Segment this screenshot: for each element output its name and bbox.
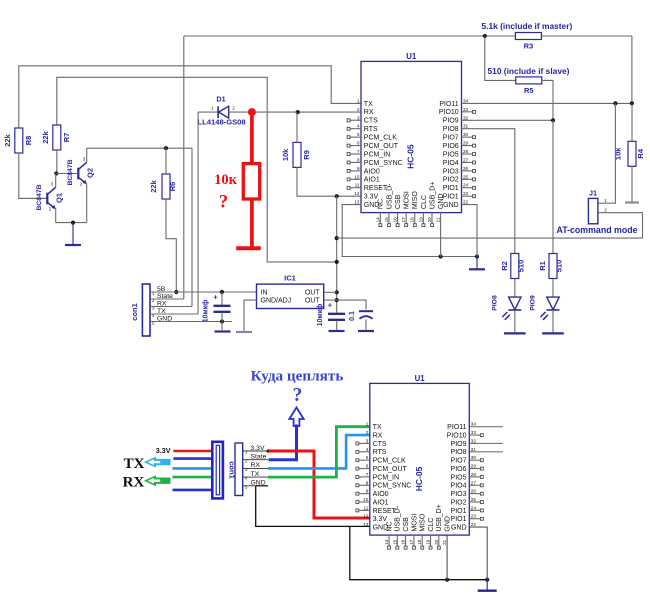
svg-text:AT-command mode: AT-command mode: [557, 225, 638, 235]
ground for GND/ADJ: [236, 331, 252, 333]
svg-text:PIO5: PIO5: [443, 151, 459, 158]
arrow RX green: [144, 475, 171, 486]
svg-text:TX: TX: [124, 456, 145, 472]
svg-text:33: 33: [471, 430, 477, 435]
svg-text:0.1: 0.1: [349, 311, 356, 321]
resistor R3 5.1k (include if master): [482, 21, 573, 51]
junction R7/Q1 collector/Q2 base: [54, 171, 58, 175]
svg-text:AIO1: AIO1: [364, 177, 380, 184]
svg-text:PIO1: PIO1: [451, 508, 467, 515]
connector con1 (top): [130, 284, 150, 336]
svg-text:1: 1: [211, 106, 214, 111]
svg-text:8: 8: [357, 157, 360, 162]
wire R8 bottom to Q1 base: [19, 153, 47, 198]
svg-text:30: 30: [471, 455, 477, 460]
svg-text:2: 2: [245, 458, 248, 463]
junction pin21 on gnd rail: [439, 254, 443, 258]
svg-text:27: 27: [463, 157, 469, 162]
LED PIO8: [492, 279, 522, 333]
svg-text:CTS: CTS: [364, 118, 378, 125]
wire D1 cathode down to con1 TX: [197, 112, 199, 314]
junction 3.3V column top: [335, 194, 339, 198]
wire IC1 OUT pins to 3.3V column: [324, 291, 337, 293]
svg-text:9: 9: [357, 166, 360, 171]
svg-text:PCM_OUT: PCM_OUT: [364, 143, 399, 150]
svg-text:TX: TX: [373, 424, 382, 431]
svg-text:GND: GND: [445, 516, 452, 532]
svg-text:CLC: CLC: [421, 195, 428, 209]
svg-text:3.3V: 3.3V: [364, 194, 379, 201]
wire black GND path: [256, 485, 268, 487]
wire con1 5B row to IC1 IN: [150, 291, 257, 293]
svg-text:PCM_IN: PCM_IN: [373, 474, 399, 481]
svg-text:32: 32: [463, 115, 469, 120]
svg-text:R2: R2: [500, 261, 509, 271]
svg-text:J1: J1: [589, 189, 597, 198]
svg-text:PIO9: PIO9: [451, 441, 467, 448]
wire cyan RX row left: [173, 467, 214, 470]
svg-text:22: 22: [471, 522, 477, 527]
capacitor 10uF electrolytic at con1: [203, 292, 231, 322]
svg-text:3: 3: [245, 467, 248, 472]
wire R6 bottom jog to 5B net: [166, 199, 176, 292]
svg-text:PIO7: PIO7: [443, 135, 459, 142]
svg-text:RX: RX: [123, 475, 145, 491]
HC-05 module U1 (top): [347, 52, 475, 226]
svg-text:27: 27: [471, 480, 477, 485]
con1-2 pin 3 RX: [243, 467, 268, 469]
svg-text:D1: D1: [216, 95, 225, 104]
resistor R6 22k: [149, 174, 177, 199]
svg-text:CSB: CSB: [403, 517, 410, 532]
svg-text:25: 25: [463, 174, 469, 179]
wire 3.3V column x=336.7: [336, 196, 338, 313]
svg-text:PIO4: PIO4: [451, 483, 467, 490]
ground below cap1: [215, 330, 231, 332]
voltage regulator IC1: [257, 274, 324, 309]
svg-text:USB_D-: USB_D-: [395, 505, 402, 531]
wire PIO8 row to R2 column: [462, 129, 515, 254]
arrow TX cyan: [144, 457, 171, 468]
svg-text:PCM_IN: PCM_IN: [364, 151, 390, 158]
junction cap1 top on 5B: [220, 290, 224, 294]
wire net R7 rail y=77.3: [57, 77, 337, 262]
svg-text:10: 10: [363, 497, 369, 502]
svg-text:PIO9: PIO9: [530, 295, 537, 311]
resistor R5 510 (include if slave): [488, 66, 570, 95]
svg-text:10: 10: [354, 174, 360, 179]
svg-text:34: 34: [471, 422, 477, 427]
svg-text:GND: GND: [451, 525, 467, 532]
svg-text:3.3V: 3.3V: [156, 446, 171, 455]
svg-text:OUT: OUT: [305, 298, 321, 305]
svg-text:RX: RX: [364, 109, 374, 116]
svg-text:21: 21: [442, 539, 447, 545]
svg-text:PIO7: PIO7: [451, 458, 467, 465]
svg-text:con1: con1: [228, 461, 237, 479]
svg-text:PIO1: PIO1: [451, 516, 467, 523]
svg-text:U1: U1: [415, 374, 426, 383]
svg-text:13: 13: [354, 200, 360, 205]
svg-text:AIO1: AIO1: [373, 499, 389, 506]
ground below 10uF-2: [329, 330, 345, 332]
svg-text:13: 13: [363, 522, 369, 527]
svg-text:PIO2: PIO2: [443, 177, 459, 184]
wire PIO9-2 row: [469, 442, 503, 444]
svg-text:1: 1: [357, 98, 360, 103]
wire R9 bottom to 3.3V pin row: [297, 167, 361, 196]
junction cap1 bottom on GND: [220, 319, 224, 323]
wire red 3.3V stub left: [173, 450, 213, 453]
svg-text:MISO: MISO: [412, 191, 419, 209]
svg-text:8: 8: [366, 480, 369, 485]
svg-text:con1: con1: [130, 303, 139, 321]
svg-text:GND: GND: [438, 194, 445, 210]
svg-text:PIO10: PIO10: [447, 432, 467, 439]
svg-text:PIO5: PIO5: [451, 474, 467, 481]
svg-text:17: 17: [401, 217, 406, 223]
svg-text:15: 15: [392, 539, 397, 545]
wire net KEY: top rail y=36 from x=183.8 to R3 and on to x=631.9: [184, 35, 516, 37]
transistor Q2 BC847B: [56, 148, 94, 222]
wire PIO11-2 row: [469, 426, 503, 428]
svg-text:510 (include if slave): 510 (include if slave): [488, 66, 570, 76]
junction 3.3V rail: [335, 236, 339, 240]
svg-text:HC-05: HC-05: [406, 144, 416, 169]
svg-text:4: 4: [357, 124, 360, 129]
svg-text:AIO0: AIO0: [364, 168, 380, 175]
svg-text:20: 20: [434, 539, 439, 545]
junction emitter rail / ground: [71, 221, 75, 225]
svg-text:22: 22: [463, 200, 469, 205]
wire U1 GND pin13 down: [342, 205, 477, 257]
svg-text:Q1: Q1: [55, 193, 64, 203]
svg-text:PIO6: PIO6: [443, 143, 459, 150]
svg-text:PIO9: PIO9: [443, 118, 459, 125]
svg-text:1: 1: [245, 450, 248, 455]
wire navy bottom stub left: [173, 489, 214, 492]
svg-text:R5: R5: [524, 86, 534, 95]
svg-text:32: 32: [471, 438, 477, 443]
svg-text:2: 2: [604, 207, 607, 212]
svg-text:CLC: CLC: [428, 518, 435, 532]
svg-text:14: 14: [375, 217, 380, 223]
con1-2 pin 1 3.3V: [243, 450, 268, 452]
junction pin22 gnd rail: [475, 254, 479, 258]
svg-text:OUT: OUT: [305, 290, 321, 297]
svg-text:24: 24: [471, 505, 477, 510]
svg-text:PCM_SYNC: PCM_SYNC: [364, 160, 403, 167]
svg-text:10k: 10k: [281, 148, 290, 161]
svg-text:3.3V: 3.3V: [251, 445, 265, 452]
svg-text:R3: R3: [524, 42, 534, 51]
svg-text:PIO3: PIO3: [451, 491, 467, 498]
svg-text:4: 4: [366, 447, 369, 452]
svg-text:R8: R8: [24, 136, 33, 146]
wire net Q2 collector rail y=148.2: [87, 147, 192, 149]
svg-text:21: 21: [436, 217, 441, 223]
junction PIO9 column: [551, 118, 555, 122]
svg-text:22k: 22k: [149, 179, 158, 192]
ground below LED PIO8: [504, 332, 526, 334]
svg-text:2: 2: [232, 106, 235, 111]
svg-text:IC1: IC1: [284, 274, 296, 283]
junction pin21 bottom rail: [445, 578, 449, 582]
svg-text:6: 6: [366, 464, 369, 469]
wire con1 TX row: [150, 313, 198, 315]
wire State blue thick: [269, 425, 297, 460]
wire con1 GND row: [150, 321, 232, 323]
ground below 0.1: [358, 330, 374, 332]
svg-text:16: 16: [401, 539, 406, 545]
wire emitter rail: [56, 222, 87, 224]
wire from R5 right to PIO9 column: [542, 80, 553, 121]
svg-text:LL4148-GS08: LL4148-GS08: [198, 118, 246, 127]
wire pin22 GND down right side: [469, 527, 487, 580]
svg-text:R6: R6: [168, 182, 177, 192]
capacitor 0.1 ceramic: [349, 311, 373, 330]
svg-text:NC: NC: [378, 199, 385, 209]
svg-text:+: +: [213, 293, 218, 302]
wire vertical x=631.9 down to PIO11 row: [631, 36, 633, 103]
svg-text:31: 31: [471, 447, 477, 452]
ground below R4: [625, 201, 639, 203]
transistor Q1 BC847B: [29, 174, 64, 223]
svg-text:R7: R7: [62, 133, 71, 143]
svg-text:PIO1: PIO1: [443, 185, 459, 192]
svg-text:14: 14: [384, 539, 389, 545]
svg-text:5: 5: [245, 484, 248, 489]
svg-text:TX: TX: [364, 101, 373, 108]
connector plug (blue, left): [212, 442, 223, 499]
wire J1 pin2 to 3.3V rail: [337, 213, 643, 238]
ground for U1 GND rail: [476, 257, 478, 270]
svg-text:23: 23: [463, 191, 469, 196]
svg-text:RTS: RTS: [373, 449, 387, 456]
resistor R2 510: [500, 254, 526, 279]
capacitor 10uF at IC1 output: [317, 301, 345, 331]
svg-text:PCM_CLK: PCM_CLK: [373, 458, 406, 465]
svg-text:Куда цеплять: Куда цеплять: [251, 368, 344, 385]
LED PIO9: [530, 279, 560, 333]
svg-text:PIO4: PIO4: [443, 160, 459, 167]
svg-text:RX: RX: [251, 462, 261, 469]
wire R1 column x=553: [552, 120, 554, 253]
svg-text:Q2: Q2: [86, 168, 95, 178]
svg-text:15: 15: [384, 217, 389, 223]
svg-text:18: 18: [410, 217, 415, 223]
svg-text:RTS: RTS: [364, 126, 378, 133]
svg-text:MOSI: MOSI: [404, 191, 411, 209]
svg-text:PIO11: PIO11: [447, 424, 466, 431]
svg-text:29: 29: [471, 464, 477, 469]
junction R6 chain on 5B line: [174, 290, 178, 294]
diode D1 LL4148-GS08: [198, 95, 248, 127]
wire dark blue stub left 2: [173, 457, 213, 460]
svg-text:2: 2: [80, 182, 83, 187]
svg-text:PIO8: PIO8: [443, 126, 459, 133]
svg-text:CSB: CSB: [395, 194, 402, 209]
svg-text:PIO2: PIO2: [451, 499, 467, 506]
wire vertical x=192 down to con1 RX: [191, 148, 193, 306]
wire net TX pullup: R8 top rail y=65.8: [19, 66, 361, 128]
svg-text:5: 5: [366, 455, 369, 460]
wire pin22 GND down: [462, 205, 478, 257]
ground bottom module: [486, 580, 488, 591]
svg-text:17: 17: [409, 539, 414, 545]
svg-text:GND/ADJ: GND/ADJ: [261, 298, 292, 305]
svg-text:30: 30: [463, 132, 469, 137]
svg-text:PIO8: PIO8: [492, 295, 499, 311]
svg-text:3: 3: [83, 157, 86, 162]
svg-text:23: 23: [471, 514, 477, 519]
svg-text:2: 2: [366, 430, 369, 435]
svg-text:16: 16: [393, 217, 398, 223]
svg-text:3.3V: 3.3V: [373, 516, 388, 523]
connector J1: [588, 189, 607, 224]
wire pin21 down to gnd rail: [440, 213, 442, 257]
wire cyan RX to U1-2 pin2: [268, 435, 370, 468]
con1-2 pin 4 TX: [243, 476, 268, 478]
svg-text:19: 19: [426, 539, 431, 545]
svg-text:R9: R9: [302, 150, 311, 160]
resistor R4 10k: [614, 141, 646, 166]
connector con1 (bottom): [228, 443, 243, 496]
wire R4 top: [631, 103, 633, 141]
svg-text:7: 7: [366, 472, 369, 477]
svg-text:25: 25: [471, 497, 477, 502]
svg-text:28: 28: [463, 149, 469, 154]
svg-text:GND: GND: [443, 202, 459, 209]
junction red resistor top (red): [248, 108, 256, 116]
svg-text:3: 3: [51, 182, 54, 187]
svg-text:1: 1: [366, 422, 369, 427]
svg-text:18: 18: [417, 539, 422, 545]
svg-text:BC847B: BC847B: [67, 159, 74, 185]
wire green TX row left: [173, 476, 214, 479]
svg-text:?: ?: [219, 193, 228, 213]
wire R7 bottom to Q1 collector junction: [56, 150, 58, 174]
svg-text:26: 26: [463, 166, 469, 171]
svg-text:R1: R1: [538, 261, 547, 271]
svg-text:12: 12: [354, 191, 360, 196]
svg-text:U1: U1: [406, 52, 417, 61]
resistor R1 510: [538, 254, 564, 279]
junction PIO11/J1 branch: [613, 101, 617, 105]
svg-text:PCM_OUT: PCM_OUT: [373, 466, 408, 473]
wire red 3.3V to U1-2 pin12: [268, 451, 370, 518]
wire PIO8-2 row: [469, 451, 503, 453]
svg-text:+: +: [328, 301, 333, 310]
svg-text:4: 4: [245, 476, 248, 481]
wire con1 State row: [150, 298, 184, 300]
wire vertical x=183.8 down to con1 State: [183, 36, 185, 299]
svg-text:PCM_CLK: PCM_CLK: [364, 135, 397, 142]
svg-text:R4: R4: [636, 148, 645, 158]
svg-text:7: 7: [357, 149, 360, 154]
svg-text:USB_D+: USB_D+: [436, 504, 443, 531]
svg-text:2: 2: [357, 107, 360, 112]
svg-text:PCM_SYNC: PCM_SYNC: [373, 483, 412, 490]
svg-text:24: 24: [463, 183, 469, 188]
svg-text:22k: 22k: [3, 133, 12, 146]
wire branch down to R5: [485, 36, 517, 80]
svg-text:10мкф: 10мкф: [317, 304, 324, 327]
resistor R7 22k: [41, 125, 71, 150]
svg-text:PIO3: PIO3: [443, 168, 459, 175]
wire green TX to U1-2 pin1: [268, 427, 370, 477]
svg-text:22k: 22k: [41, 130, 50, 143]
svg-text:PIO6: PIO6: [451, 466, 467, 473]
svg-text:29: 29: [463, 141, 469, 146]
svg-text:33: 33: [463, 107, 469, 112]
wire J1 pin1 to PIO11 junction: [604, 103, 616, 203]
svg-text:USB_D+: USB_D+: [429, 182, 436, 209]
svg-text:?: ?: [293, 385, 303, 406]
svg-text:10мкф: 10мкф: [203, 300, 210, 323]
svg-text:20: 20: [427, 217, 432, 223]
junction R6 top: [164, 146, 168, 150]
junction at R3 left / R5 branch: [483, 34, 487, 38]
svg-text:34: 34: [463, 98, 469, 103]
wire gnd drop to bottom rail: [350, 526, 487, 579]
wire PIO9 row to R5/R1 column: [462, 119, 554, 121]
svg-text:3: 3: [366, 438, 369, 443]
svg-text:19: 19: [418, 217, 423, 223]
svg-text:PIO1: PIO1: [443, 194, 459, 201]
svg-text:MISO: MISO: [420, 513, 427, 531]
svg-text:PIO11: PIO11: [439, 101, 458, 108]
wire net RX row to U1 pin2: [247, 111, 361, 113]
svg-text:31: 31: [463, 124, 469, 129]
junction R9 top: [296, 110, 300, 114]
svg-text:6: 6: [357, 141, 360, 146]
block arrow up (where to attach): [289, 408, 303, 427]
svg-text:USB_D-: USB_D-: [386, 183, 393, 209]
junction red start: [267, 449, 271, 453]
junction IC1 OUT b: [335, 298, 339, 302]
wire PIO11 row y=103.4: [462, 102, 632, 104]
junction pin22 bottom rail: [485, 578, 489, 582]
svg-text:510: 510: [555, 260, 564, 273]
svg-text:PIO8: PIO8: [451, 449, 467, 456]
wire R9 top: [296, 112, 298, 142]
resistor R8 22k: [3, 128, 33, 153]
svg-text:TX: TX: [251, 471, 260, 478]
svg-text:RESET: RESET: [373, 508, 397, 515]
HC-05 module U1 (bottom): [356, 374, 483, 549]
svg-text:1: 1: [604, 198, 607, 203]
svg-text:10k: 10k: [614, 147, 623, 160]
svg-text:28: 28: [471, 472, 477, 477]
wire R4 bottom: [631, 167, 633, 202]
svg-text:BC847B: BC847B: [36, 184, 43, 210]
svg-text:MOSI: MOSI: [411, 514, 418, 532]
wire con1 RX row: [150, 306, 192, 308]
svg-text:IN: IN: [261, 290, 268, 297]
svg-text:PIO10: PIO10: [439, 109, 459, 116]
resistor R9 10k: [281, 142, 311, 167]
svg-text:RESET: RESET: [364, 185, 388, 192]
junction IC1 OUT a: [335, 290, 339, 294]
svg-text:26: 26: [471, 489, 477, 494]
con1-2 pin 5 GND: [243, 485, 268, 487]
svg-text:RX: RX: [373, 432, 383, 439]
svg-text:11: 11: [355, 183, 360, 188]
wire OUT row to 0.1 cap: [337, 300, 366, 309]
svg-text:12: 12: [363, 514, 369, 519]
wire pin21 down: [446, 535, 448, 580]
